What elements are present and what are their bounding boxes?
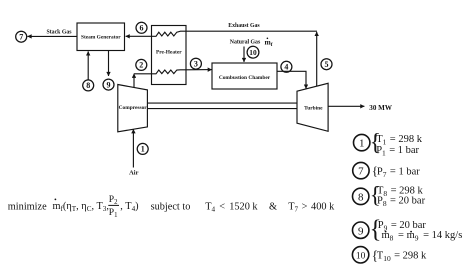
svg-text:m8 = m9 = 14 kg/s: m8 = m9 = 14 kg/s [382, 230, 463, 243]
svg-text:Pre-Heater: Pre-Heater [156, 50, 182, 56]
svg-text:Combustion Chamber: Combustion Chamber [219, 75, 271, 81]
wire feedwater into steam generator [87, 51, 89, 79]
state list entry 9 [353, 216, 463, 243]
pre-heater hot coil [152, 31, 187, 36]
wire turbine output [328, 105, 364, 107]
svg-text:P1 = 1 bar: P1 = 1 bar [376, 145, 419, 158]
svg-text:6: 6 [140, 24, 144, 33]
svg-text:30 MW: 30 MW [369, 104, 392, 112]
svg-text:8: 8 [358, 192, 364, 204]
node 8 [83, 80, 94, 91]
shaft [147, 102, 297, 104]
turbine [297, 83, 328, 131]
wire pre-heater to steam generator [126, 35, 152, 37]
node 3 [190, 58, 201, 69]
svg-text:2: 2 [139, 61, 143, 70]
pre-heater cold coil [152, 70, 187, 74]
svg-text:Compressor: Compressor [119, 105, 148, 111]
svg-text:4: 4 [284, 63, 288, 72]
svg-text:9: 9 [358, 225, 364, 237]
steam generator [77, 23, 125, 51]
node 5 [321, 59, 332, 70]
svg-text:P1: P1 [109, 207, 118, 219]
svg-text:3: 3 [194, 60, 198, 69]
svg-text:1: 1 [359, 138, 365, 150]
svg-text:Stack Gas: Stack Gas [47, 30, 73, 36]
wire turbine to exhaust riser [316, 32, 318, 87]
node 2 [136, 59, 147, 70]
svg-text:1: 1 [141, 145, 145, 154]
wire exhaust gas [186, 30, 317, 32]
svg-text:Turbine: Turbine [304, 106, 323, 112]
natural gas mdot_f label [265, 37, 273, 48]
wire air intake [132, 129, 134, 167]
state list entry 10 [352, 247, 427, 264]
svg-text:7: 7 [358, 166, 364, 178]
wire stack gas [28, 35, 78, 37]
node 6 [136, 22, 147, 33]
svg-text:P2: P2 [109, 194, 118, 206]
wire natural gas feed [243, 47, 245, 63]
wire compressor discharge to pre-heater [134, 73, 152, 75]
svg-text:10: 10 [356, 251, 366, 261]
state list entry 1 [354, 130, 423, 157]
node 10 [247, 46, 259, 58]
wire combustion chamber to turbine [277, 71, 306, 88]
svg-text:T10 = 298 k: T10 = 298 k [377, 251, 427, 264]
svg-text:9: 9 [107, 80, 111, 89]
node 4 [281, 61, 292, 72]
wire compressor discharge riser [133, 74, 135, 88]
state list entry 8 [353, 182, 426, 208]
svg-text:, T4): , T4) [120, 201, 138, 213]
svg-text:&: & [269, 202, 277, 213]
wire steam out of steam generator [108, 51, 110, 77]
svg-text:Natural Gas: Natural Gas [230, 39, 261, 45]
svg-text:T4 < 1520 k: T4 < 1520 k [205, 202, 258, 214]
objective function line [8, 194, 335, 219]
svg-text:mf(ηT, ηC, T3,: mf(ηT, ηC, T3, [53, 201, 109, 213]
svg-text:minimize: minimize [8, 202, 47, 213]
svg-text:subject to: subject to [151, 202, 191, 213]
svg-text:P7 = 1 bar: P7 = 1 bar [377, 167, 420, 180]
pre-heater [152, 26, 187, 85]
svg-text:10: 10 [249, 48, 257, 57]
svg-text:8: 8 [86, 81, 90, 90]
svg-text:mf: mf [265, 37, 273, 48]
wire pre-heater to combustion chamber [186, 69, 212, 71]
svg-text:Air: Air [129, 170, 138, 177]
compressor [118, 85, 148, 132]
node 9 [103, 79, 114, 90]
state list entry 7 [353, 162, 421, 179]
svg-text:T7 > 400 k: T7 > 400 k [288, 202, 335, 214]
combustion chamber [212, 63, 277, 89]
svg-text:7: 7 [19, 33, 23, 42]
svg-text:Exhaust Gas: Exhaust Gas [228, 23, 260, 29]
node 1 [137, 143, 148, 154]
svg-text:5: 5 [325, 60, 329, 69]
svg-text:Steam Generator: Steam Generator [81, 34, 121, 40]
node 7 [16, 31, 27, 42]
